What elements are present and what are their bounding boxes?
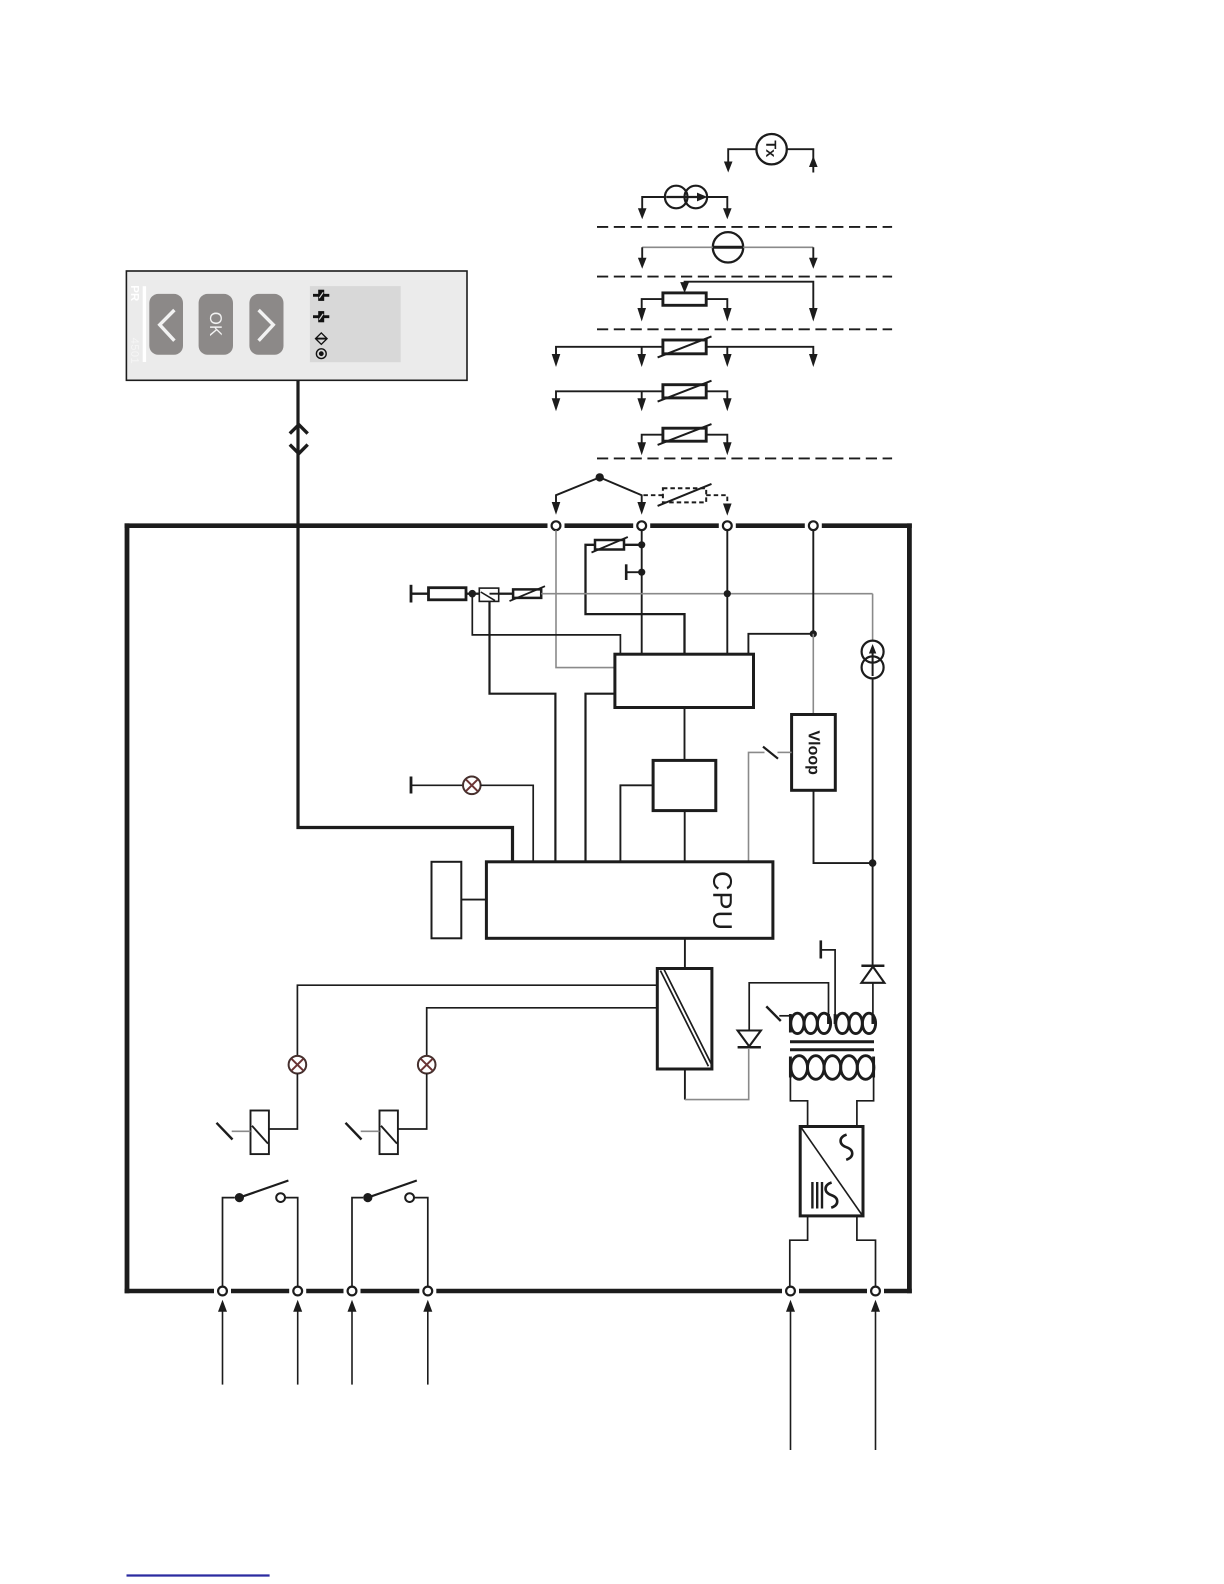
wire V right — [743, 246, 813, 248]
footer rule — [127, 1574, 270, 1576]
resistor Rref — [429, 588, 467, 600]
display unit 4501 body — [126, 271, 467, 380]
button left-arrow — [149, 294, 183, 355]
wire DAC left to CPU — [620, 785, 653, 861]
node Rref junction — [469, 590, 477, 598]
wire optocoupler to relay2 lamp — [427, 1008, 658, 1056]
transformer primary winding left — [790, 1013, 830, 1033]
wire contact1 NO to terminal — [285, 1198, 298, 1289]
main enclosure right border — [907, 523, 912, 1293]
wire mA left — [642, 197, 665, 210]
terminal 1 top — [552, 521, 561, 530]
wire thermistor to ADC — [586, 545, 685, 654]
bidirectional arrows on display wire — [290, 425, 308, 434]
terminal 7 bottom — [348, 1287, 357, 1296]
wire sensor bus (grey) — [541, 593, 872, 595]
EEPROM block — [432, 862, 462, 939]
wire terminal4 down — [812, 530, 814, 634]
dashed separator 2 — [597, 276, 892, 278]
wire Tx right with up arrow — [787, 149, 814, 172]
wire secondary to PSU left — [790, 1078, 807, 1127]
node terminal4 branch — [810, 630, 817, 637]
wire contact1 common to terminal — [223, 1198, 235, 1289]
DAC block — [653, 760, 716, 810]
wire pot left — [642, 299, 663, 309]
terminal supply L bottom — [786, 1287, 795, 1296]
wire terminal1 to ADC (grey) — [556, 530, 615, 667]
wire Rref junction to ADC — [472, 594, 620, 655]
power supply AC/DC block — [800, 1127, 863, 1216]
button right-arrow — [249, 294, 283, 355]
diode D1 — [738, 1031, 761, 1048]
switch blade primary — [766, 1006, 781, 1021]
wire CPU to Vloop switch (grey) — [749, 752, 765, 861]
wire D2 to primary right — [872, 983, 874, 1015]
current source mA — [665, 186, 688, 209]
lamp relay1 — [289, 1056, 307, 1074]
RTD optional wire (dashed) — [663, 488, 706, 502]
wire ADC to DAC — [684, 708, 686, 761]
node junction 2-wire jumper — [596, 473, 604, 481]
arrow into terminal 5 — [218, 1300, 227, 1312]
relay2 contact — [363, 1193, 372, 1202]
icon setpoint 2 — [313, 311, 329, 322]
ground stub at terminal2 — [625, 564, 628, 580]
transformer secondary winding — [790, 1056, 873, 1080]
button OK — [199, 294, 233, 355]
terminal 3 top — [723, 521, 732, 530]
optocoupler block — [657, 969, 712, 1070]
wire display to CPU — [298, 380, 513, 861]
wire terminal4 to Vloop (grey) — [812, 634, 814, 715]
wire mA right — [707, 197, 727, 210]
wire bus to current source (grey) — [872, 594, 874, 641]
ADC block — [615, 654, 754, 707]
wire secondary to PSU right — [857, 1078, 874, 1127]
wire optocoupler to relay1 lamp — [297, 985, 657, 1056]
wire ADC to CPU left — [586, 694, 615, 861]
relay2 actuator blade — [346, 1123, 362, 1140]
wire lamp1 to relay1 coil — [269, 1074, 298, 1130]
relay coil RL1 — [251, 1111, 269, 1155]
reference terminal stub — [410, 585, 413, 603]
main enclosure top border — [125, 523, 912, 528]
arrow into terminal 6 — [293, 1300, 302, 1312]
terminal 6 bottom — [293, 1287, 302, 1296]
wire DAC bottom to CPU — [684, 811, 686, 861]
wire contact2 common to terminal — [352, 1198, 363, 1289]
wire PSU to supply terminal N — [857, 1216, 876, 1289]
potentiometer — [663, 293, 706, 305]
wire switch box to CPU — [490, 601, 556, 861]
icon communication diamond — [316, 333, 328, 344]
wire Vloop to loop node — [814, 790, 873, 863]
switch blade Vloop — [763, 747, 778, 759]
transmitter Tx circle — [756, 134, 786, 164]
linearisation resistor — [513, 589, 541, 598]
wire terminal2 to ADC — [641, 530, 643, 654]
diode D2 — [861, 966, 884, 983]
wire current source down — [872, 678, 874, 863]
wire loop node to D2 — [872, 863, 874, 966]
arrow into terminal 8 — [423, 1300, 432, 1312]
node thermistor-terminal2 — [638, 541, 645, 548]
display screen — [310, 286, 401, 362]
icon setpoint 1 — [313, 290, 329, 301]
transformer core — [790, 1040, 874, 1043]
Vloop block — [792, 715, 836, 791]
terminal 2 top — [637, 521, 646, 530]
display unit PR logo — [131, 286, 139, 301]
arrow into terminal L — [786, 1300, 795, 1312]
node bus-terminal3 — [724, 590, 731, 597]
node loop junction — [869, 859, 877, 867]
thermistor CJC sensor — [595, 540, 624, 550]
wire PSU to supply terminal L — [790, 1216, 808, 1289]
wire pot right — [706, 299, 727, 309]
terminal supply N bottom — [871, 1287, 880, 1296]
wire V left — [642, 246, 713, 248]
wire optocoupler bottom — [684, 1069, 686, 1100]
display unit 4501 label — [131, 338, 139, 363]
arrow into terminal 7 — [348, 1300, 357, 1312]
voltage source V — [713, 232, 743, 262]
main enclosure bottom border — [125, 1289, 912, 1294]
wire EEPROM to CPU — [461, 899, 486, 901]
wire lamp to CPU — [481, 785, 534, 861]
node ground-terminal2 — [638, 569, 645, 576]
arrow into terminal N — [871, 1300, 880, 1312]
potentiometer wiper wire — [685, 282, 814, 310]
relay1 actuator blade — [217, 1123, 233, 1140]
center tap stub terminal — [819, 940, 822, 958]
RTD 4-wire — [663, 340, 706, 354]
relay coil RL2 — [380, 1111, 398, 1155]
wire Tx left — [728, 149, 756, 163]
wire CPU to optocoupler — [684, 938, 686, 968]
terminal 5 bottom — [218, 1287, 227, 1296]
wire terminal4 to ADC — [748, 634, 813, 654]
CPU block — [486, 862, 773, 939]
current source sensor excitation — [862, 641, 884, 663]
display unit white divider bar — [143, 286, 146, 362]
RTD 2-wire — [663, 428, 706, 441]
wire terminal3 to ADC — [726, 530, 728, 654]
dashed separator 1 — [597, 226, 892, 228]
wire to diode D1 (grey) — [685, 1049, 749, 1100]
dashed separator 3 — [597, 328, 892, 330]
RTD 3-wire — [663, 385, 706, 398]
relay1 contact — [235, 1193, 244, 1202]
terminal 8 bottom — [423, 1287, 432, 1296]
main enclosure left border — [125, 523, 130, 1293]
wire contact2 NO to terminal — [414, 1198, 428, 1289]
lamp channel indicator — [410, 777, 413, 794]
wire lamp2 to relay2 coil — [398, 1074, 427, 1130]
wire D1 to transformer primary — [749, 983, 828, 1031]
terminal 4 top — [809, 521, 818, 530]
dashed separator 4 — [597, 457, 892, 459]
lamp relay2 — [418, 1056, 436, 1074]
transformer primary winding right — [835, 1013, 876, 1033]
icon record dot — [316, 349, 326, 359]
switch box — [479, 588, 498, 601]
